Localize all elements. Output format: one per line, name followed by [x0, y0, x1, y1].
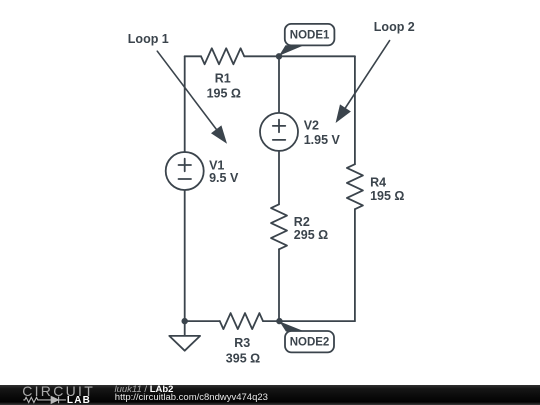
wire: center branch lower: [278, 249, 280, 321]
wire: left branch lower: [184, 190, 186, 321]
svg-text:LAB: LAB: [67, 394, 91, 405]
svg-text:R2: R2: [294, 215, 310, 229]
node label NODE1 box: [285, 24, 335, 46]
Loop 2 arrow line: [344, 41, 390, 110]
svg-text:Loop 1: Loop 1: [128, 32, 169, 46]
svg-text:Loop 2: Loop 2: [374, 20, 415, 34]
svg-text:R1: R1: [215, 72, 231, 86]
wire: center branch middle: [278, 151, 280, 204]
wire: R3 to ground junction: [185, 320, 220, 322]
Loop 1 arrow head: [211, 125, 227, 143]
wire: ground stub: [184, 321, 186, 336]
svg-text:295 Ω: 295 Ω: [294, 228, 328, 242]
node label NODE2 callout tail: [279, 321, 305, 331]
resistor R4: [347, 164, 363, 209]
svg-text:R3: R3: [234, 336, 250, 350]
wire: center branch upper: [278, 56, 280, 113]
node NODE2 junction dot: [276, 318, 282, 324]
footer author/title line: [115, 384, 174, 395]
Loop 2 arrow head: [336, 104, 351, 123]
footer black bar: [0, 385, 540, 405]
svg-text:9.5 V: 9.5 V: [209, 171, 239, 185]
ground: [169, 336, 200, 351]
footer url line: [115, 392, 268, 403]
resistor R3: [220, 313, 263, 329]
ground junction dot: [182, 318, 188, 324]
svg-text:195 Ω: 195 Ω: [207, 86, 241, 100]
svg-text:395 Ω: 395 Ω: [226, 351, 260, 365]
wire: NODE2 to R3: [263, 320, 279, 322]
wire: right branch lower: [354, 209, 356, 321]
svg-text:1.95 V: 1.95 V: [304, 133, 341, 147]
voltage source V2: [260, 113, 298, 151]
wire: NODE1 to top-right corner: [279, 55, 355, 57]
logo wire-resistor-diode symbol: [23, 396, 66, 403]
resistor R2: [271, 204, 287, 249]
wire: bottom-right horizontal segment: [279, 320, 355, 322]
svg-text:195 Ω: 195 Ω: [370, 189, 404, 203]
svg-text:NODE1: NODE1: [290, 30, 330, 42]
wire: right branch upper: [354, 56, 356, 164]
node NODE1 junction dot: [276, 53, 282, 59]
wire: top-left horizontal segment: [185, 55, 201, 57]
resistor R1: [201, 48, 244, 64]
voltage source V1: [166, 152, 204, 190]
node label NODE2 box: [285, 331, 334, 352]
wire: R1 to NODE1: [244, 55, 279, 57]
svg-text:V2: V2: [304, 118, 319, 132]
wire: left branch upper: [184, 56, 186, 152]
Loop 1 arrow line: [157, 51, 218, 131]
svg-text:NODE2: NODE2: [290, 336, 330, 348]
CircuitLab logo: [15, 384, 115, 405]
svg-text:R4: R4: [370, 175, 386, 189]
node label NODE1 callout tail: [279, 45, 304, 56]
